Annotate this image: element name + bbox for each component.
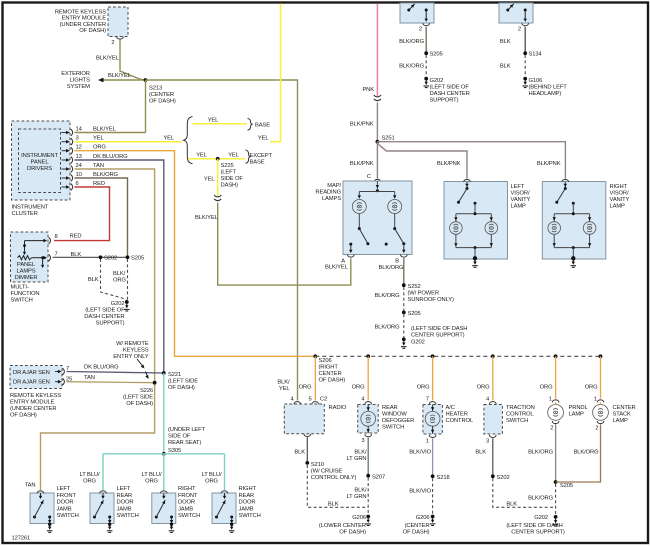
svg-text:SUPPORT): SUPPORT) [96,321,125,327]
svg-text:MAP/: MAP/ [327,183,341,189]
node S205 [424,51,428,55]
internals: feed from C [376,181,378,189]
svg-text:YEL: YEL [258,136,269,142]
svg-text:S221: S221 [168,372,181,378]
svg-text:G202: G202 [411,340,425,346]
dashed BLK S210 to G206 [307,465,368,507]
wire BLK/ORG pin B to S252 [403,258,405,285]
svg-text:S134: S134 [529,52,543,58]
svg-text:ORG: ORG [145,479,158,485]
pin 7 [55,371,59,373]
svg-text:LT GRN: LT GRN [346,456,366,462]
wire pin13 DK BLU/ORG to S221 [75,160,164,373]
lamp bus [456,213,491,215]
svg-text:OF DASH): OF DASH) [168,385,195,391]
dashed BLK/LT GRN to G206 [367,478,369,515]
pin 8 [49,237,51,244]
svg-text:DASH CENTER: DASH CENTER [430,91,470,97]
svg-text:ORG: ORG [352,385,365,391]
ground G106 (behind left headlamp) [523,77,527,81]
wire LT BLU/ORG S221 to S305 [163,373,165,454]
wire pin3 YEL to brace [75,141,182,143]
svg-text:CONTROL: CONTROL [506,412,534,418]
svg-text:ORG: ORG [93,145,106,151]
bus junction [366,354,370,358]
vanity bulb [589,214,591,222]
svg-text:KEYLESS: KEYLESS [123,348,149,354]
svg-text:SIDE OF: SIDE OF [221,176,244,182]
wire BLK/ORG center stack to S205 [600,402,602,404]
svg-text:BLK/ORG: BLK/ORG [93,172,119,178]
svg-text:(LEFT SIDE OF DASH: (LEFT SIDE OF DASH [411,326,467,332]
svg-text:LAMP: LAMP [511,204,527,210]
svg-text:G106: G106 [529,78,543,84]
svg-text:12: 12 [76,145,82,151]
svg-text:(RIGHT: (RIGHT [319,365,339,371]
svg-text:BLK/PNK: BLK/PNK [350,122,374,128]
vanity bulb [553,214,555,222]
svg-text:3: 3 [361,438,364,444]
ground G202 (left side of dash center support) [125,300,129,304]
svg-text:SWITCH: SWITCH [178,513,200,519]
svg-text:24: 24 [76,163,83,169]
svg-text:RIGHT: RIGHT [610,184,628,190]
svg-text:RED: RED [70,234,82,240]
svg-text:3: 3 [76,136,79,142]
bottom bus to ground [456,247,491,249]
cluster pin 12 (ORG) [62,150,67,152]
svg-text:DOOR: DOOR [178,500,195,506]
remote keyless entry module (door ajar) box [10,366,62,389]
svg-text:LAMP: LAMP [610,204,626,210]
svg-text:REAR: REAR [239,493,255,499]
wire BLK/PNK S251 to map lamps pin C [376,142,378,179]
PRNDL lamp [552,400,559,403]
wire ORG taps down [314,356,316,400]
wire PNK from top [376,4,378,97]
cluster pin 10 (BLK/ORG) [62,177,67,179]
internals: switch [466,182,468,188]
svg-text:DK BLU/ORG: DK BLU/ORG [93,154,128,160]
wire pin10 BLK/ORG to S205 [75,178,128,257]
svg-text:(W/ CRUISE: (W/ CRUISE [311,469,343,475]
svg-text:JAMB: JAMB [178,506,193,512]
svg-text:G202: G202 [534,515,548,521]
svg-text:CONTROL: CONTROL [446,418,474,424]
ground at case [571,256,575,260]
svg-text:CENTER SUPPORT): CENTER SUPPORT) [411,333,465,339]
svg-text:EXTERIOR: EXTERIOR [61,71,90,77]
pin 4 [365,402,372,405]
svg-text:YEL: YEL [279,386,290,392]
svg-text:G202: G202 [430,78,444,84]
wire S213 down to cluster pin 14 [145,80,147,133]
dashed BLK/ORG to G202 [555,484,557,515]
svg-text:VISOR/: VISOR/ [511,191,530,197]
svg-text:PNK: PNK [362,87,374,93]
svg-text:BLK/ORG: BLK/ORG [379,265,405,271]
svg-text:LIGHTS: LIGHTS [70,78,90,84]
lamp bulb [358,192,360,199]
svg-text:SWITCH: SWITCH [382,425,404,431]
cluster pin 24 (TAN) [62,168,67,170]
svg-text:FRONT: FRONT [178,493,198,499]
cluster pin 6 (RED) [62,186,67,188]
svg-text:(UNDER CENTER: (UNDER CENTER [60,22,106,28]
svg-text:WINDOW: WINDOW [382,412,407,418]
svg-text:SWITCH: SWITCH [57,513,79,519]
wire BLK/PNK to S251 [376,103,378,142]
pin B [400,255,407,258]
pin 7 [49,254,51,261]
svg-text:(LEFT SIDE OF: (LEFT SIDE OF [430,85,470,91]
ground G202 [402,337,406,341]
svg-text:S226: S226 [140,388,153,394]
svg-text:CLUSTER: CLUSTER [12,211,38,217]
wire YEL base branch [193,123,248,125]
svg-text:LT BLU/: LT BLU/ [202,472,222,478]
svg-text:2: 2 [550,426,553,432]
svg-text:MULTI-: MULTI- [11,285,29,291]
internals: switch [564,182,566,188]
pin 5 [312,402,319,405]
pin 2 [522,23,529,26]
wire BLK/LT GRN to S207 [367,438,369,476]
svg-text:REMOTE KEYLESS: REMOTE KEYLESS [10,393,61,399]
svg-text:BLK/ORG: BLK/ORG [528,450,554,456]
svg-text:7: 7 [55,252,58,258]
left visor/vanity lamp box [444,182,508,260]
ground G206 (lower center of dash) [366,515,370,519]
node S305 [162,452,166,456]
node S210 [305,461,309,465]
wire pin24 TAN to S226 and left front door switch [75,169,155,383]
pin 1 [429,435,436,438]
svg-text:14: 14 [76,126,83,132]
cluster pin 13 (DK BLU/ORG) [62,159,67,161]
wire YEL from S225 down to break [217,159,219,196]
svg-text:LAMP: LAMP [613,418,629,424]
lamp bus [554,213,589,215]
svg-text:10: 10 [76,172,82,178]
remote keyless entry module (top) [108,7,128,37]
instrument cluster outer box [12,121,71,200]
svg-text:TAN: TAN [93,163,104,169]
svg-text:PANEL: PANEL [31,160,50,166]
right visor/vanity lamp box [542,182,606,260]
svg-text:(LEFT SIDE: (LEFT SIDE [168,379,198,385]
cluster pin 14 (BLK/YEL) [62,132,67,134]
svg-text:DRIVERS: DRIVERS [27,166,52,172]
svg-text:BLK/ORG: BLK/ORG [375,293,401,299]
node S134 [523,51,527,55]
svg-text:BLK/ORG: BLK/ORG [399,39,425,45]
svg-text:DR AJAR SEN: DR AJAR SEN [13,370,50,376]
svg-text:REAR: REAR [382,405,398,411]
multi-function switch box [11,232,49,282]
svg-text:BLK/PNK: BLK/PNK [437,161,461,167]
svg-text:DASH): DASH) [221,183,239,189]
node S202 [491,474,495,478]
svg-text:ORG: ORG [113,278,126,284]
inline connector break [214,195,221,197]
svg-text:BLK: BLK [506,502,517,508]
svg-text:YEL: YEL [208,118,219,124]
svg-text:PRNDL: PRNDL [569,405,589,411]
svg-text:LAMPS: LAMPS [16,269,35,275]
pin 3 [489,435,496,438]
left front door jamb switch box [30,493,54,524]
svg-text:W/ REMOTE: W/ REMOTE [116,341,149,347]
right front door jamb switch box [152,493,176,524]
pin 2 [423,23,430,26]
svg-text:S218: S218 [437,475,450,481]
svg-text:(UNDER CENTER: (UNDER CENTER [10,406,56,412]
svg-text:STACK: STACK [613,412,632,418]
map/reading lamps box [343,181,412,255]
svg-text:LEFT: LEFT [57,486,71,492]
left rear door jamb switch box [90,493,114,524]
svg-text:13: 13 [76,154,82,160]
svg-text:5: 5 [308,397,311,403]
svg-text:2: 2 [111,40,114,46]
svg-text:BLK/VIO: BLK/VIO [409,489,431,495]
node S207 [366,474,370,478]
svg-text:DASH CENTER: DASH CENTER [84,314,124,320]
svg-text:127261: 127261 [12,536,31,542]
svg-text:DOOR: DOOR [57,500,74,506]
svg-text:BLK/ORG: BLK/ORG [399,64,425,70]
svg-text:ORG: ORG [477,385,490,391]
svg-text:(LOWER CENTER: (LOWER CENTER [319,523,366,529]
bus junction [491,354,495,358]
svg-text:YEL: YEL [93,136,104,142]
svg-text:LEFT: LEFT [511,184,525,190]
traction control switch box [484,405,503,435]
dashed BLK to G202 [493,478,556,507]
svg-text:DR AJAR SEN: DR AJAR SEN [13,380,50,386]
wire pin6 RED to panel lamps dimmer pin 8 [54,187,110,241]
dashed BLK/ORG S205 to G202 [127,259,129,300]
wire BLK pin7 to S202/S205 [53,256,128,258]
svg-text:JAMB: JAMB [239,506,254,512]
svg-text:3: 3 [486,439,489,445]
pin 2 [117,37,124,40]
svg-text:CONTROL ONLY): CONTROL ONLY) [311,475,357,481]
svg-text:BLK/YEL: BLK/YEL [195,215,219,221]
svg-text:RIGHT: RIGHT [178,486,196,492]
svg-text:S207: S207 [372,475,385,481]
pin 3 [365,434,372,437]
radio bottom pin [304,434,311,437]
svg-text:(CENTER: (CENTER [149,92,174,98]
svg-text:(LEFT SIDE: (LEFT SIDE [123,395,153,401]
wire BLK to S202 [492,438,494,476]
cluster pin 3 (YEL) [62,141,67,143]
svg-text:7: 7 [426,397,429,403]
svg-text:(CENTER: (CENTER [405,523,430,529]
svg-text:S205: S205 [430,52,443,58]
svg-text:LT BLU/: LT BLU/ [80,472,100,478]
svg-text:TAN: TAN [84,375,95,381]
center stack lamp [597,400,604,403]
svg-text:S205: S205 [408,311,421,317]
svg-text:BASE: BASE [255,123,270,129]
svg-text:RED: RED [93,181,105,187]
svg-text:1: 1 [594,397,597,403]
svg-text:ORG: ORG [299,385,312,391]
svg-text:INSTRUMENT: INSTRUMENT [21,153,58,159]
svg-text:OF DASH): OF DASH) [149,99,176,105]
ground at case [473,256,477,260]
node S221 [162,371,166,375]
svg-text:4: 4 [486,397,490,403]
svg-text:6: 6 [76,181,79,187]
svg-text:BLK/ORG: BLK/ORG [375,325,401,331]
wire pin14 BLK/YEL [75,132,146,134]
pin A [347,255,354,258]
svg-text:2: 2 [419,27,422,33]
svg-text:S202: S202 [104,256,117,262]
svg-text:ENTRY MODULE: ENTRY MODULE [62,16,107,22]
node S202 [99,255,103,259]
svg-text:(BEHIND LEFT: (BEHIND LEFT [529,85,568,91]
ground G202 (left side of dash center support) [554,515,558,519]
svg-text:DEFOGGER: DEFOGGER [382,418,414,424]
svg-text:LT BLU/: LT BLU/ [142,472,162,478]
svg-text:S206: S206 [319,358,332,364]
svg-text:ENTRY MODULE: ENTRY MODULE [10,400,55,406]
pin 25 [55,381,59,383]
svg-text:VANITY: VANITY [511,197,531,203]
wire BLK/YEL pin A joining S213 net [298,258,351,285]
svg-text:YEL: YEL [228,153,239,159]
wire to exterior lights system [102,79,146,81]
svg-text:ORG: ORG [205,479,218,485]
svg-text:DK BLU/ORG: DK BLU/ORG [84,365,119,371]
svg-text:HEATER: HEATER [446,412,468,418]
svg-text:SWITCH: SWITCH [239,513,261,519]
svg-text:CENTER: CENTER [319,371,342,377]
wire LT BLU/ORG bus to door switches [103,453,225,455]
svg-text:(LEFT: (LEFT [221,170,237,176]
svg-text:DOOR: DOOR [239,500,256,506]
svg-text:BLK/YEL: BLK/YEL [108,73,132,79]
pin 4 [489,402,496,405]
svg-text:YEL: YEL [196,153,207,159]
node S213 [144,78,148,82]
right rear door jamb switch box [212,493,236,524]
svg-text:4: 4 [290,397,294,403]
wire TAN pin25 to S226 [67,382,155,383]
svg-text:G202: G202 [111,301,125,307]
wire BLK switch2 to S134 [524,27,526,53]
bus junction [599,354,603,358]
svg-text:S202: S202 [497,475,510,481]
node S205 [554,480,558,484]
wire YEL except-base branch with node S225 [188,158,245,160]
wire BLK/PNK S251 to right visor lamp [377,142,565,179]
svg-text:RIGHT: RIGHT [239,486,257,492]
wire BLK/YEL from break joining radio pin4 net [218,203,298,286]
svg-text:ORG: ORG [417,385,430,391]
svg-text:G206: G206 [352,515,366,521]
dome/courtesy switch box 1 (top) [400,3,434,23]
svg-text:BLK/VIO: BLK/VIO [409,450,431,456]
node S225 [216,157,220,161]
right brace (except base) [246,150,251,164]
svg-text:S252: S252 [408,284,421,290]
svg-text:SYSTEM: SYSTEM [67,84,90,90]
svg-text:SUNROOF ONLY): SUNROOF ONLY) [408,297,455,303]
svg-text:OF DASH): OF DASH) [403,530,430,536]
svg-text:BLK/YEL: BLK/YEL [96,56,120,62]
svg-text:CENTER SUPPORT): CENTER SUPPORT) [511,530,565,536]
illumination bulb [432,405,434,412]
svg-text:BLK/ORG: BLK/ORG [528,496,554,502]
vanity bulb [455,214,457,222]
svg-text:(UNDER LEFT: (UNDER LEFT [168,427,206,433]
svg-text:REAR SEAT): REAR SEAT) [168,440,201,446]
bus junction [554,354,558,358]
svg-text:HEADLAMP): HEADLAMP) [529,91,562,97]
svg-text:JAMB: JAMB [117,506,132,512]
node S252 [402,283,406,287]
dashed BLK S202 to G202 [101,259,127,301]
rear window defogger switch box [358,405,379,434]
svg-text:BASE: BASE [250,160,265,166]
svg-text:SWITCH: SWITCH [506,418,528,424]
svg-text:2: 2 [518,27,521,33]
panel lamps dimmer internals [25,240,45,242]
instrument panel drivers inner box [19,129,61,193]
pin 4 [294,402,301,405]
svg-text:TAN: TAN [25,483,36,489]
svg-text:VISOR/: VISOR/ [610,191,629,197]
svg-text:OF DASH): OF DASH) [339,530,366,536]
dashed BLK to G106 [524,55,526,77]
svg-text:(LEFT SIDE OF DASH: (LEFT SIDE OF DASH [506,523,562,529]
svg-text:LT GRN: LT GRN [346,494,366,500]
svg-text:EXCEPT: EXCEPT [250,153,273,159]
svg-text:DIMMER: DIMMER [15,275,38,281]
left lamp switch [358,227,361,230]
svg-text:DOOR: DOOR [117,500,134,506]
svg-text:TRACTION: TRACTION [506,405,535,411]
ground G202 [424,77,428,81]
svg-text:OF DASH): OF DASH) [126,401,153,407]
svg-text:BLK/YEL: BLK/YEL [93,126,117,132]
svg-text:OF DASH): OF DASH) [10,413,37,419]
svg-text:S210: S210 [311,462,324,468]
dashed BLK/ORG to G202 [403,314,405,337]
svg-text:YEL: YEL [163,136,174,142]
wire DK BLU/ORG pin7 to S221 [67,372,164,374]
wire BLK/PNK S251 to left visor lamp [377,144,467,179]
svg-text:(LEFT SIDE OF: (LEFT SIDE OF [85,308,125,314]
svg-text:OF DASH): OF DASH) [79,28,106,34]
svg-text:1: 1 [426,439,429,445]
svg-text:SWITCH: SWITCH [117,513,139,519]
svg-text:YEL: YEL [204,177,215,183]
svg-text:B: B [395,259,399,265]
wire S213 right then down to radio pin 4 (BLK/YEL) [146,80,298,401]
svg-text:VANITY: VANITY [610,197,630,203]
svg-text:CENTER: CENTER [613,405,636,411]
svg-text:G206: G206 [416,515,430,521]
svg-text:BLK: BLK [500,39,511,45]
wire BLK/YEL module pin2 to S213 [120,40,146,80]
